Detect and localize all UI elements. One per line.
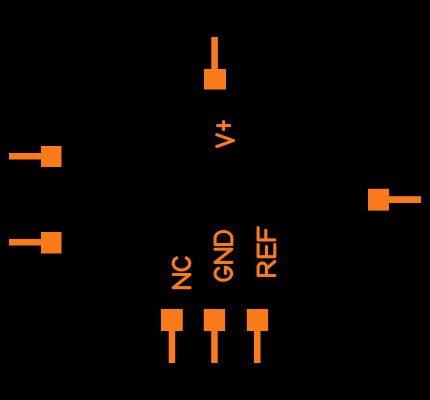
pin NC (bottom): wire stub <box>169 330 176 363</box>
pin GND (bottom): pad <box>204 309 225 331</box>
pin REF (bottom): pad <box>247 309 268 331</box>
pin left upper: pad <box>41 146 62 167</box>
pin V+ (top): pad <box>204 69 226 90</box>
pin NC (bottom): pad <box>161 309 183 331</box>
pin GND (bottom): wire stub <box>211 330 218 363</box>
pin left lower: wire stub <box>9 239 42 246</box>
pin label NC (rotated) <box>173 258 190 288</box>
pin label REF (rotated) <box>258 228 275 276</box>
pin label GND (rotated) <box>215 232 232 281</box>
pin right: pad <box>368 189 389 211</box>
pin left lower: pad <box>41 232 62 254</box>
pin right: wire stub <box>388 196 421 203</box>
pin label V+ (rotated) <box>217 122 234 147</box>
pin REF (bottom): wire stub <box>254 330 261 363</box>
pin left upper: wire stub <box>9 153 42 160</box>
pin V+ (top): wire stub <box>211 37 218 70</box>
